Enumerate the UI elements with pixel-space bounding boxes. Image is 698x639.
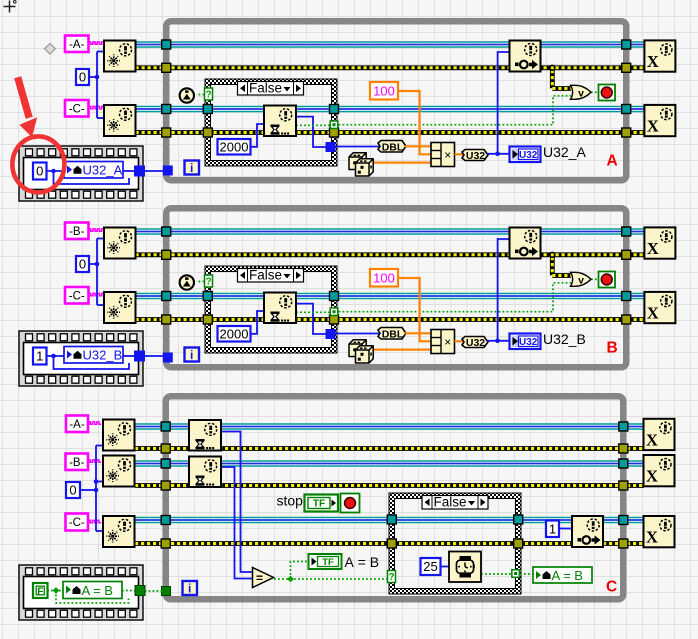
- svg-text:U32_A: U32_A: [83, 163, 123, 178]
- loop C right olive tunnel 3: [619, 539, 628, 548]
- release/destroy icon X2 A: [644, 105, 675, 136]
- svg-text:X: X: [647, 303, 659, 322]
- wire orange dice to multiply A: [369, 162, 431, 164]
- numeric constant 0 loop A: [76, 69, 89, 85]
- svg-text:TF: TF: [322, 557, 334, 568]
- wire error 1 loop B: [136, 252, 645, 257]
- case C ? terminal: [388, 571, 396, 583]
- svg-text:C: C: [606, 579, 617, 596]
- U32 coercion tag B: [462, 337, 488, 348]
- strip wire blue B: [47, 355, 65, 357]
- case structure loop A: [205, 79, 337, 166]
- svg-text:X: X: [646, 430, 658, 449]
- release/destroy icon X1 A: [644, 40, 675, 71]
- wire teal C1: [135, 423, 644, 430]
- wire blue case to DBL B: [335, 333, 379, 335]
- or gate A: [571, 85, 592, 99]
- case right olive tunnel A: [330, 128, 339, 137]
- multiply node A: [431, 143, 455, 167]
- case C right teal tunnel: [514, 515, 523, 524]
- loop right teal tunnel 2 A: [622, 105, 631, 114]
- while loop A: [166, 21, 626, 180]
- wire green dotted to or gate B: [339, 283, 572, 312]
- wire blue up to release B: [498, 239, 510, 341]
- case blue tunnel A: [326, 143, 335, 152]
- svg-text:False: False: [249, 267, 282, 282]
- wait on notification icon A: [264, 106, 296, 137]
- wire orange dice to multiply B: [369, 349, 431, 351]
- case C left teal tunnel: [387, 515, 396, 524]
- case C left olive tunnel: [387, 539, 396, 548]
- wire blue wait out B: [296, 304, 330, 334]
- loop iteration terminal A: [185, 161, 200, 175]
- release/destroy icon X1 B: [644, 227, 675, 258]
- wire blue U32 to indicator A: [487, 153, 510, 155]
- svg-text:-C-: -C-: [69, 290, 85, 302]
- name label -A- loop C: [66, 416, 88, 433]
- loop C left green tunnel: [162, 587, 171, 596]
- svg-text:A = B: A = B: [345, 554, 380, 570]
- wire blue 2000 to wait A: [251, 124, 266, 147]
- wire error C2: [135, 483, 644, 488]
- watch icon: [449, 552, 481, 583]
- svg-text:False: False: [433, 494, 466, 509]
- loop C right olive tunnel 2: [619, 481, 628, 490]
- wire blue 25 to watch: [441, 566, 450, 568]
- svg-text:U32_B: U32_B: [83, 348, 123, 363]
- string wire -A- C: [88, 422, 101, 424]
- obtain notifier icon C1: [103, 420, 135, 451]
- strip C F constant: [33, 583, 48, 598]
- name label -C- loop B: [65, 287, 89, 304]
- wire error branch down B: [550, 257, 555, 276]
- loop left olive tunnel 2 A: [162, 128, 171, 137]
- string wire -C- B: [89, 293, 104, 295]
- wire teal C2: [135, 460, 644, 467]
- wire blue sigma1 to equals: [222, 432, 253, 573]
- loop right teal tunnel 1 B: [622, 227, 631, 236]
- loop left olive tunnel 1 B: [162, 250, 171, 259]
- red annotation arrow: [14, 76, 37, 137]
- obtain notifier icon C3: [103, 516, 135, 547]
- wire teal reference 2 loop A: [136, 106, 645, 113]
- loop C right teal tunnel 1: [619, 422, 628, 431]
- svg-text:1: 1: [549, 521, 556, 536]
- DBL coercion tag A: [378, 141, 406, 153]
- svg-text:U32: U32: [519, 337, 538, 348]
- obtain notifier icon 1 A: [104, 41, 136, 72]
- wait on notification icon B: [264, 293, 296, 324]
- error wire junction ring A: [550, 65, 555, 70]
- release/destroy icon X3 C: [644, 516, 675, 547]
- svg-text:0: 0: [69, 483, 76, 498]
- obtain notifier icon C2: [103, 456, 135, 487]
- wire blue 0 branch B: [89, 263, 97, 265]
- wire error 2 loop B: [136, 317, 645, 322]
- strip local variable A: [64, 162, 123, 179]
- wire error 2 loop A: [136, 130, 645, 135]
- origin crosshair marker: [4, 1, 16, 13]
- wire blue 1 to release: [559, 528, 572, 530]
- loop left teal tunnel 1 A: [162, 40, 171, 49]
- svg-text:TF: TF: [313, 499, 325, 510]
- release/destroy icon X1 C: [644, 419, 675, 450]
- strip init constant A: [33, 163, 47, 180]
- loop C right olive tunnel 1: [619, 444, 628, 453]
- svg-text:False: False: [249, 80, 282, 95]
- svg-text:0: 0: [79, 257, 86, 272]
- loop left blue tunnel B: [163, 353, 172, 362]
- wire junction dot A: [495, 152, 500, 157]
- stop button constant B: [599, 272, 616, 288]
- wire green dotted wait out B: [296, 311, 330, 313]
- loop C right teal tunnel 3: [619, 516, 628, 525]
- case structure loop B: [205, 266, 337, 353]
- release notification icon B: [510, 228, 541, 259]
- svg-text:X: X: [647, 116, 659, 135]
- loop C left olive tunnel 2: [161, 481, 170, 490]
- wire green dotted selector B: [195, 281, 206, 283]
- or gate B: [571, 272, 592, 286]
- multiply node B: [431, 330, 455, 354]
- numeric constant 100 A: [370, 82, 398, 100]
- loop C left olive tunnel 1: [161, 444, 170, 453]
- case green out tunnel A: [330, 120, 339, 129]
- numeric constant 0 loop C: [66, 482, 80, 498]
- name label -B- loop C: [66, 454, 89, 471]
- loop left olive tunnel 2 B: [162, 315, 171, 324]
- strip init constant B: [33, 348, 47, 365]
- svg-text:F: F: [37, 586, 43, 597]
- stop TF terminal: [305, 495, 339, 512]
- wire teal C3: [135, 517, 644, 524]
- svg-text:0: 0: [79, 70, 86, 85]
- svg-text:i: i: [190, 348, 193, 362]
- svg-text:-A-: -A-: [69, 419, 85, 431]
- case selector ? terminal A: [205, 88, 213, 100]
- wire error C3: [135, 541, 644, 546]
- numeric constant 2000 B: [218, 326, 251, 342]
- strip local variable B: [64, 347, 123, 364]
- wire junction dot B: [495, 339, 500, 344]
- svg-text:=: =: [256, 571, 263, 585]
- wire orange multiply to U32 A: [455, 153, 464, 155]
- loop iteration terminal B: [185, 348, 200, 362]
- wire blue sigma2 to equals: [222, 467, 253, 579]
- svg-text:DBL: DBL: [382, 328, 404, 340]
- svg-text:25: 25: [423, 559, 437, 574]
- U32 indicator local B: [510, 334, 541, 350]
- error wire junction ring B: [550, 252, 555, 257]
- loop right teal tunnel 2 B: [622, 292, 631, 301]
- svg-text:U32_A: U32_A: [543, 144, 586, 160]
- case left olive tunnel B: [203, 315, 212, 324]
- wire error branch down A: [550, 70, 555, 89]
- string wire -A- A: [89, 42, 104, 44]
- svg-text:X: X: [646, 528, 658, 547]
- wire teal reference 1 loop B: [136, 228, 645, 235]
- loop C iteration terminal: [183, 581, 198, 595]
- svg-text:A: A: [607, 153, 618, 170]
- wire green dotted to or gate A: [339, 96, 572, 125]
- wire blue U32 to indicator B: [487, 340, 510, 342]
- loop left teal tunnel 2 A: [162, 105, 171, 114]
- wire teal reference 1 loop A: [136, 41, 645, 48]
- loop C right teal tunnel 2: [619, 459, 628, 468]
- wire green dotted watch out: [481, 573, 512, 575]
- while loop B: [166, 208, 626, 367]
- wire green dotted or to stop B: [591, 278, 599, 280]
- release notification icon A: [510, 41, 541, 72]
- loop C left teal tunnel 3: [161, 516, 170, 525]
- case right teal tunnel B: [330, 292, 339, 301]
- name label -C- loop C: [66, 514, 89, 531]
- svg-text:-C-: -C-: [69, 103, 85, 115]
- wire green dotted case to local: [520, 573, 534, 575]
- svg-text:?: ?: [205, 90, 211, 101]
- svg-text:-B-: -B-: [69, 226, 85, 238]
- release/destroy icon X2 B: [644, 292, 675, 323]
- svg-text:A = B: A = B: [82, 583, 113, 598]
- case right teal tunnel A: [330, 105, 339, 114]
- U32 indicator local A: [510, 147, 541, 163]
- loop right olive tunnel 2 A: [622, 128, 631, 137]
- svg-text:v: v: [578, 274, 584, 286]
- obtain notifier icon 2 A: [104, 105, 136, 136]
- release/destroy icon X2 C: [644, 455, 675, 486]
- wire blue 0 branch C: [80, 489, 96, 491]
- obtain notifier icon 1 B: [104, 228, 136, 259]
- string wire -A- B: [89, 229, 104, 231]
- sequence strip B: [19, 331, 143, 386]
- wire error 1 loop A: [136, 65, 645, 70]
- green junction diamond: [287, 576, 294, 583]
- loop C left teal tunnel 2: [161, 459, 170, 468]
- wire green dotted or to stop A: [591, 91, 599, 93]
- svg-text:B: B: [607, 340, 618, 357]
- case C right olive tunnel: [514, 539, 523, 548]
- svg-text:100: 100: [373, 83, 395, 98]
- wire orange 100 to multiply A: [398, 91, 431, 154]
- loop C left olive tunnel 3: [161, 539, 170, 548]
- red annotation ellipse: [12, 136, 64, 192]
- name label -B- loop B: [65, 223, 89, 240]
- wire green dotted selector A: [195, 94, 206, 96]
- case blue tunnel B: [326, 330, 335, 339]
- svg-text:2000: 2000: [220, 139, 249, 154]
- loop C left teal tunnel 1: [161, 422, 170, 431]
- svg-text:2000: 2000: [220, 326, 249, 341]
- wire orange multiply to U32 B: [455, 340, 464, 342]
- loop right teal tunnel 1 A: [622, 40, 631, 49]
- loop left teal tunnel 1 B: [162, 227, 171, 236]
- string wire -C- A: [89, 106, 104, 108]
- svg-text:i: i: [190, 161, 193, 175]
- svg-text:X: X: [647, 52, 659, 71]
- loop right olive tunnel 1 A: [622, 63, 631, 72]
- svg-text:U32: U32: [466, 150, 485, 162]
- timeout clock icon B: [178, 274, 195, 291]
- strip C junction diamond: [53, 587, 60, 594]
- svg-text:×: ×: [444, 335, 451, 349]
- svg-text:1: 1: [36, 349, 43, 364]
- svg-text:i: i: [188, 582, 191, 596]
- numeric constant 1 loop C: [546, 521, 559, 538]
- equal? comparison node: [253, 568, 274, 588]
- case left teal tunnel B: [203, 292, 212, 301]
- stop button constant A: [599, 85, 616, 101]
- random number dice icon B: [349, 340, 366, 357]
- strip wire blue A: [47, 170, 65, 172]
- svg-text:-B-: -B-: [69, 457, 85, 469]
- svg-text:0: 0: [36, 164, 43, 179]
- name label -C- loop A: [65, 100, 89, 117]
- case left olive tunnel A: [203, 128, 212, 137]
- numeric constant 0 loop B: [76, 256, 89, 272]
- svg-text:v: v: [578, 87, 584, 99]
- case selector ? terminal B: [205, 275, 213, 287]
- TF local variable: [309, 554, 342, 569]
- obtain notifier icon 2 B: [104, 292, 136, 323]
- svg-text:U32_B: U32_B: [543, 331, 586, 347]
- strip C right tunnel: [135, 586, 145, 596]
- strip C local variable: [63, 582, 122, 599]
- svg-text:U32: U32: [519, 150, 538, 161]
- wire green dotted wait out A: [296, 124, 330, 126]
- string wire -B- C: [88, 460, 101, 462]
- string wire -C- C: [88, 520, 101, 522]
- strip right tunnel B: [135, 351, 145, 361]
- svg-text:?: ?: [205, 277, 211, 288]
- svg-text:100: 100: [373, 270, 395, 285]
- strip C wire green dotted: [47, 590, 63, 592]
- random number dice icon A: [349, 153, 366, 170]
- strip right tunnel A: [135, 166, 145, 176]
- wire green dotted equals out: [274, 578, 388, 580]
- wait on notification icon C2: [189, 457, 221, 488]
- sequence strip A: [19, 146, 143, 201]
- wire blue wait out A: [296, 117, 330, 147]
- wire blue 2000 to wait B: [251, 311, 266, 334]
- wire orange 100 to multiply B: [398, 278, 431, 341]
- case right olive tunnel B: [330, 315, 339, 324]
- wire blue up to release A: [498, 52, 510, 154]
- svg-text:stop: stop: [277, 493, 304, 509]
- loop left blue tunnel A: [163, 166, 172, 175]
- case C green out tunnel: [511, 569, 520, 578]
- loop right olive tunnel 2 B: [622, 315, 631, 324]
- loop left teal tunnel 2 B: [162, 292, 171, 301]
- wire blue 0 branch A: [89, 76, 97, 78]
- svg-text:X: X: [646, 467, 658, 486]
- numeric constant 2000 A: [218, 139, 251, 155]
- wire orange DBL to multiply A: [405, 145, 431, 147]
- numeric constant 25: [421, 558, 441, 575]
- case green out tunnel B: [330, 307, 339, 316]
- timeout clock icon A: [178, 87, 195, 104]
- case structure C: [389, 493, 521, 594]
- svg-text:X: X: [647, 239, 659, 258]
- numeric constant 100 B: [370, 269, 398, 287]
- wire green dotted up to TF local: [291, 562, 310, 580]
- case left teal tunnel A: [203, 105, 212, 114]
- wire teal reference 2 loop B: [136, 293, 645, 300]
- wire error C1: [135, 446, 644, 451]
- name label -A- loop A: [65, 36, 89, 53]
- svg-text:A = B: A = B: [552, 568, 583, 583]
- wire orange DBL to multiply B: [405, 332, 431, 334]
- gray diamond alignment marker: [45, 44, 56, 55]
- while loop C: [166, 396, 624, 599]
- loop left olive tunnel 1 A: [162, 63, 171, 72]
- loop right olive tunnel 1 B: [622, 250, 631, 259]
- svg-text:?: ?: [388, 572, 394, 583]
- sequence strip C: [19, 565, 143, 620]
- stop button control: [341, 494, 360, 513]
- svg-text:-A-: -A-: [69, 39, 85, 51]
- DBL coercion tag B: [378, 328, 406, 340]
- svg-text:×: ×: [444, 148, 451, 162]
- local variable A=B write: [533, 567, 592, 583]
- release notification icon C: [572, 516, 603, 547]
- U32 coercion tag A: [462, 150, 488, 161]
- wait on notification icon C1: [189, 420, 221, 451]
- svg-text:-C-: -C-: [69, 517, 85, 529]
- wire blue case to DBL A: [335, 146, 379, 148]
- svg-text:U32: U32: [466, 337, 485, 349]
- svg-text:DBL: DBL: [382, 141, 404, 153]
